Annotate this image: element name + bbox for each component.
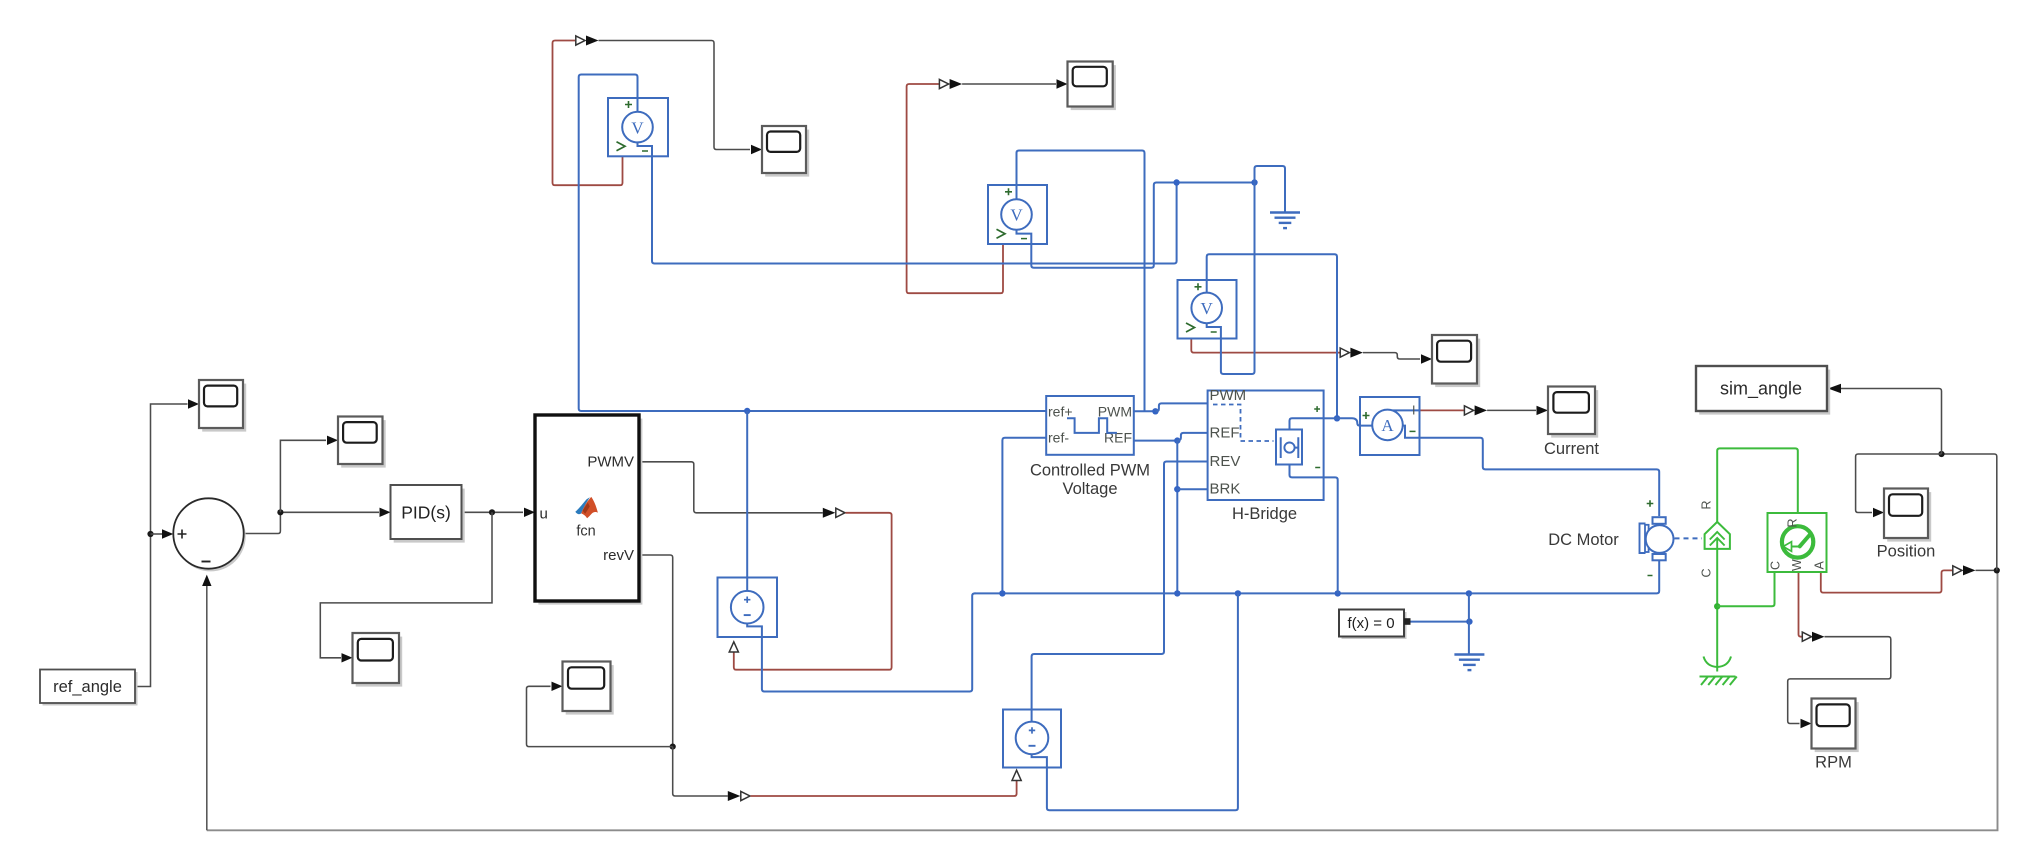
svg-text:V: V (631, 118, 644, 137)
wire: PS red from revV to CVS2 control (751, 781, 1017, 796)
arrow: open at top-left converter (576, 36, 585, 45)
svg-text:sim_angle: sim_angle (1720, 379, 1802, 400)
node: solver/ground junction (1466, 618, 1472, 624)
block: Scope6 (353, 633, 403, 687)
arrow: PWMV filled (signal to PS) (823, 508, 836, 518)
arrow: open converter on W line (1802, 632, 1811, 641)
wire: revV branch to converter arrows (673, 747, 728, 796)
node: green case junction (1714, 603, 1720, 609)
arrow: into Scope5 (327, 436, 338, 445)
arrow: into sim_angle (pointing left) (1828, 384, 1841, 393)
wire: solver port to ground riser (1411, 621, 1470, 623)
wire: green rotational R connection to motion sensor R (1717, 448, 1798, 521)
svg-text:C: C (1700, 568, 1714, 577)
arrow: into fcn u input (524, 508, 535, 517)
node: PWM output junction (1152, 408, 1158, 414)
arrow: into RPM scope (1801, 719, 1812, 728)
wire: PWM junction up into H-Bridge PWM port (1155, 403, 1207, 411)
svg-text:R: R (1700, 500, 1714, 509)
wire: angle net to Position scope (1856, 454, 1942, 513)
wire: branch up to Scope5 (280, 440, 326, 512)
wire: VSensor3 - up to ground rail junction (1221, 183, 1255, 375)
node: BRK junction (1174, 486, 1180, 492)
node: bus junction solver/ground riser (1466, 590, 1472, 596)
wire: H-Bridge - down to bus (1324, 477, 1338, 593)
wire: green case to motion sensor C (1717, 572, 1774, 606)
node: angle net upper junction (1938, 451, 1944, 457)
wire: VSensor2 - elbow to ground rail (1031, 183, 1254, 268)
arrow: filled at top converter for Scope2 (950, 79, 963, 89)
svg-text:PWM: PWM (1098, 404, 1132, 420)
node: bus junction REF/BRK riser (1174, 590, 1180, 596)
arrow: into Scope2 (1057, 79, 1068, 88)
wire: PS red from motion sensor A output (1821, 570, 1953, 592)
node: sum output branch (277, 509, 283, 515)
wire: H-Bridge + port to junction (1324, 417, 1337, 419)
block: voltage sensor VS3 (1178, 280, 1237, 339)
wire: black into Current scope (1487, 409, 1536, 411)
svg-text:PWM: PWM (1210, 387, 1247, 404)
wire: Controlled PWM Voltage REF output (1134, 440, 1178, 442)
block: MATLAB Function fcn (535, 415, 642, 605)
arrow: into sum - input (up) (202, 575, 211, 586)
wire: VSensor3 + up over and down to H-Bridge + node (1207, 254, 1337, 418)
wire: sum output to PID (244, 512, 379, 533)
wire: VSensor1 - down and right to ground rail riser (652, 156, 1177, 263)
wire: green rotational C connection down (1716, 549, 1718, 660)
ground: electrical reference (top) bars (1270, 213, 1300, 229)
svg-text:Voltage: Voltage (1062, 480, 1117, 498)
block: Position scope (1884, 489, 1931, 542)
node: ground rail junction right (1251, 179, 1257, 185)
block: Current scope (1548, 387, 1598, 438)
wire: up to sim_angle input (1841, 389, 1942, 455)
block: Sum (error) circle (173, 498, 245, 571)
block: H-Bridge (1208, 387, 1324, 500)
arrow: into Scope3 (1421, 354, 1432, 363)
wire: CVS1 - down right and up to bus left end (762, 593, 976, 691)
wire: VSensor2 + up over and down to PWM output line (1017, 151, 1145, 412)
wire: black from converter to Scope1 (599, 41, 751, 150)
svg-text:H-Bridge: H-Bridge (1232, 505, 1297, 523)
svg-text:DC Motor: DC Motor (1548, 531, 1619, 549)
svg-text:A: A (1381, 416, 1394, 435)
wire: feedback bottom long run (207, 570, 1998, 830)
wire: junction into current sensor + (1337, 418, 1360, 425)
wire: rail branch down into CVS1 + (746, 411, 748, 578)
arrow: filled converter on W line (1812, 632, 1825, 642)
arrow: into Scope1 (751, 145, 762, 154)
svg-text:V: V (1010, 206, 1023, 225)
wire: CVS2 - down right and up to bus (1047, 593, 1238, 810)
wire: bus riser down to electrical reference (bottom) (1468, 593, 1470, 653)
node: H-Bridge + / current sensor + junction (1334, 415, 1340, 421)
block: f(x)=0 solver configuration (1339, 610, 1411, 640)
svg-text:BRK: BRK (1210, 481, 1241, 498)
ground: electrical reference (bottom) bars (1454, 655, 1484, 671)
wire: CVS2 + up over and up into H-Bridge REV port (1032, 462, 1208, 710)
node: bus junction ref- (999, 590, 1005, 596)
node: ref_angle branch junction (147, 531, 153, 537)
arrow: revV open (741, 791, 750, 800)
ground: mechanical rotational reference (1700, 657, 1737, 686)
wire: PID output to fcn u (462, 511, 524, 513)
wire: feedback left vertical to sum - input (206, 585, 208, 830)
arrow: open converter before Current scope (1464, 406, 1473, 415)
svg-text:REV: REV (1210, 453, 1241, 470)
arrow: open up into CVS2 control port (1012, 770, 1021, 780)
arrow: into Position scope (1873, 508, 1884, 517)
block: ideal rotational motion sensor (green) (1768, 513, 1827, 572)
svg-text:I: I (1412, 404, 1415, 418)
block: controlled voltage source CVS2 (1003, 710, 1061, 768)
icon: MATLAB logo membrane (575, 497, 598, 518)
block: PID(s) controller (391, 485, 465, 543)
wire: black into Scope2 (962, 83, 1056, 85)
block: voltage sensor VS2 (988, 185, 1047, 244)
svg-text:ref_angle: ref_angle (53, 678, 122, 696)
svg-text:ref+: ref+ (1048, 404, 1073, 420)
block: Scope3 (1432, 335, 1480, 387)
block: Scope1 (top left) (762, 126, 809, 177)
wire: REF junction up into H-Bridge REF port (1177, 433, 1207, 441)
svg-text:RPM: RPM (1815, 754, 1852, 772)
wire: fcn revV output down (639, 555, 673, 747)
node: revV branch junction (670, 744, 676, 750)
arrow: into sum + input (162, 529, 173, 538)
wire: PS red from VSensor2 > output wrapping left and up (907, 84, 1003, 293)
node: bus junction CVS2 return (1235, 590, 1241, 596)
block: Scope4 (199, 380, 246, 432)
wire: black into Scope3 (1363, 353, 1420, 359)
arrow: into Scope6 (342, 653, 353, 662)
wire: BRK junction into H-Bridge BRK port (1177, 488, 1207, 490)
block: voltage sensor VS1 (608, 98, 668, 156)
svg-text:Position: Position (1877, 543, 1936, 561)
arrow: into Scope4 (188, 399, 199, 408)
wire: ref_angle output up to Scope4 (135, 404, 188, 687)
arrow: filled converter on A line (1963, 565, 1976, 575)
svg-text:revV: revV (603, 547, 634, 564)
svg-text:V: V (1201, 299, 1214, 318)
svg-text:PWMV: PWMV (587, 453, 634, 470)
wire: dashed physical link DC Motor to rotational port (1675, 537, 1703, 539)
arrow: into PID input (380, 508, 391, 517)
wire: PS red from motion sensor W output (1799, 573, 1802, 637)
wire: PID output branch down to Scope6 (320, 512, 492, 658)
wire: PS red from PWMV to CVS1 control (734, 513, 892, 670)
wire: current sensor - to DC Motor + (1420, 438, 1659, 516)
svg-text:R: R (1786, 518, 1800, 527)
svg-text:fcn: fcn (576, 523, 595, 539)
svg-text:W: W (1790, 559, 1804, 571)
svg-text:ref-: ref- (1048, 430, 1069, 446)
arrow: open at top converter for Scope2 (939, 79, 948, 88)
block: Scope7 (563, 662, 614, 715)
wire: VSensor1 + up over and down to supply rail (579, 75, 1046, 412)
svg-text:REF: REF (1210, 424, 1240, 441)
block: Scope2 (top middle) (1068, 62, 1116, 111)
wire: PS red from VSensor1 > output wrapping left and up (553, 41, 623, 186)
block: controlled voltage source CVS1 (718, 578, 778, 638)
svg-text:C: C (1769, 561, 1783, 570)
block: current sensor (A) (1360, 397, 1420, 455)
wire: Controlled PWM Voltage PWM output (1134, 410, 1156, 412)
node: ground rail junction left (1173, 179, 1179, 185)
block: DC Motor icon (1640, 500, 1674, 575)
svg-text:A: A (1813, 561, 1827, 570)
block: Scope5 (338, 417, 386, 468)
arrow: open converter before Scope3 (1340, 348, 1349, 357)
wire: PS red from current sensor I output (1420, 409, 1464, 411)
arrow: filled converter before Scope3 (1350, 348, 1363, 358)
svg-text:f(x) = 0: f(x) = 0 (1347, 615, 1394, 632)
svg-text:Current: Current (1544, 440, 1599, 458)
arrow: open converter on A line (1953, 566, 1962, 575)
arrow: filled at top-left converter (586, 36, 599, 46)
wire: rail up-over to electrical reference stem (1255, 166, 1286, 212)
wire: PS red from VSensor3 > output (1191, 339, 1339, 353)
node: angle net lower junction (1994, 567, 2000, 573)
arrow: into Scope7 (552, 682, 563, 691)
block: sim_angle sink (1696, 366, 1830, 415)
wire: angle net vertical up and to sim_angle elbow (1942, 454, 1997, 570)
svg-text:Controlled PWM: Controlled PWM (1030, 462, 1150, 480)
block: rotational conserving port (green pentagon) (1705, 522, 1730, 549)
arrow: into Current scope (1537, 406, 1549, 415)
arrow: filled converter before Current scope (1475, 405, 1488, 415)
node: bus junction H-Bridge - (1335, 590, 1341, 596)
svg-text:PID(s): PID(s) (401, 503, 451, 523)
wire: black from A converter to net junction (1976, 569, 1997, 571)
node: rail junction at CVS1 top (744, 408, 750, 414)
svg-text:u: u (540, 505, 548, 522)
wire: zero-volt bus across to DC Motor - (975, 561, 1660, 594)
wire: Controlled PWM Voltage ref- down to bus (1002, 438, 1046, 594)
wire: branch into sum + input (151, 533, 163, 535)
block: RPM scope (1812, 699, 1859, 753)
arrow: open up into CVS1 control port (729, 642, 738, 652)
arrow: PWMV open (PS converter) (836, 508, 845, 517)
node: PID output branch (489, 509, 495, 515)
block: Controlled PWM Voltage (1046, 396, 1134, 455)
wire: revV branch left to Scope7 (527, 686, 673, 746)
wire: black from W converter to RPM scope (1788, 637, 1891, 724)
wire: fcn PWMV output (639, 462, 823, 513)
block: ref_angle source (40, 670, 138, 706)
node: REF junction (1174, 437, 1180, 443)
wire: REF junction down to zero-volt bus (1176, 441, 1178, 594)
arrow: revV filled (728, 791, 741, 801)
